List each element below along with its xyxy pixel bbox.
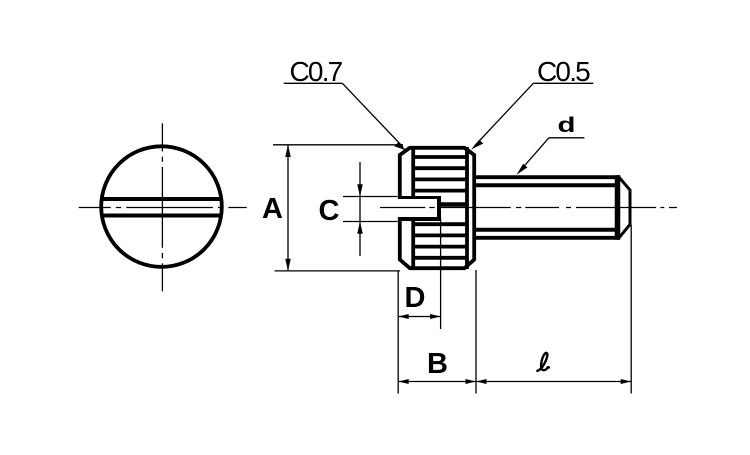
- svg-text:D: D: [405, 282, 426, 314]
- side view: slot opening (white): [396, 199, 437, 217]
- side view: head knurl boundary left: [411, 147, 415, 269]
- svg-text:B: B: [427, 348, 448, 380]
- side view: head outline with chamfered corners: [400, 148, 474, 268]
- side view: knurl lines on head: [412, 157, 468, 258]
- side view: threaded shank top outer line: [476, 175, 620, 179]
- side view: chamfered tip outline: [619, 177, 630, 238]
- side view: head knurl boundary right: [465, 147, 469, 269]
- side view: shank bottom outer line: [476, 236, 620, 240]
- chamfer callout C0.7 text: [290, 56, 343, 87]
- side view: thread end bar: [615, 175, 621, 240]
- dimension C extension line bottom: [343, 221, 398, 223]
- front view slot lower edge: [101, 214, 223, 218]
- svg-text:C0.5: C0.5: [537, 56, 590, 87]
- extension line under head right (B/l): [475, 270, 477, 394]
- side view: slot upper line: [398, 196, 441, 199]
- thread label d text: [558, 113, 576, 137]
- dimension l line with arrows: [476, 379, 631, 384]
- side view: slot lower line: [398, 217, 441, 221]
- dimension A line with arrows: [285, 145, 291, 271]
- side view: thread root top line: [476, 183, 618, 187]
- chamfer callout C0.5 text: [537, 56, 590, 87]
- front view horizontal centerline: [79, 207, 247, 209]
- thread label d leader: [517, 138, 585, 175]
- side view horizontal centerline: [380, 207, 677, 209]
- svg-text:C0.7: C0.7: [290, 56, 343, 87]
- svg-text:C: C: [319, 195, 340, 227]
- front view slot upper edge: [101, 197, 223, 201]
- svg-text:d: d: [558, 113, 576, 137]
- dimension label A: [262, 193, 283, 225]
- dimension B label: [427, 348, 448, 380]
- dimension C extension line top: [343, 196, 398, 198]
- dimension D line with arrows: [398, 314, 440, 319]
- chamfer callout C0.7 leader: [284, 83, 407, 150]
- dimension label D: [405, 282, 426, 314]
- dimension A extension line bottom: [275, 270, 401, 272]
- dimension label C: [319, 195, 340, 227]
- extension line under head left (B): [397, 272, 399, 394]
- dimension A extension line top: [273, 144, 403, 146]
- side view: slot end bar: [437, 196, 441, 221]
- front view vertical centerline: [161, 123, 163, 291]
- svg-text:A: A: [262, 193, 283, 225]
- dimension C line with arrows: [357, 162, 363, 256]
- chamfer callout C0.5 leader: [471, 83, 593, 149]
- side view: thread root bottom line: [476, 228, 618, 232]
- dimension B line with arrows: [398, 379, 476, 384]
- front view: screw head circle: [101, 146, 222, 267]
- dimension D extension line right: [440, 218, 442, 329]
- dimension label script l: [537, 353, 549, 371]
- extension line under screw tip (l): [630, 225, 632, 394]
